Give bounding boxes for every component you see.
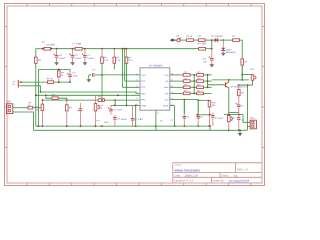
frame left ticks [5, 25, 8, 27]
svg-text:C? 4.7uF: C? 4.7uF [113, 108, 122, 111]
wire d-row b [193, 39, 198, 41]
wire bus y126 [36, 125, 210, 127]
capacitor C9 [197, 100, 199, 114]
trimmer RV1 [251, 75, 254, 80]
trimmer RV3 vertical [95, 95, 97, 103]
wire y98 jog [46, 95, 52, 98]
wire d-row d [218, 39, 233, 41]
connector CN2 [250, 120, 256, 129]
wire Q1 collector [228, 80, 230, 82]
svg-text:Drawn By:: Drawn By: [213, 180, 225, 183]
svg-text:D? 1N4007: D? 1N4007 [212, 35, 224, 38]
wire d-row e [239, 40, 242, 59]
svg-text:GND: GND [141, 105, 146, 108]
resistor matrix row 1 [170, 74, 184, 76]
switch S1 [177, 39, 180, 42]
resistor R20 horizontal [52, 97, 58, 100]
svg-text:100uF: 100uF [75, 57, 82, 60]
capacitor C14 [114, 115, 116, 118]
diode D2 1N4007 [215, 38, 218, 42]
wire rail segment 3 [82, 48, 198, 50]
resistor R15 horizontal [187, 39, 194, 42]
svg-text:2018-12-20: 2018-12-20 [185, 175, 199, 178]
svg-text:LED?: LED? [226, 48, 232, 51]
svg-text:C? 100nF: C? 100nF [117, 118, 127, 121]
wire x126 drop2 [126, 70, 128, 106]
transistor Q1 [208, 84, 226, 86]
wire drop x126 down [126, 63, 128, 69]
inductor L1 [75, 47, 82, 50]
svg-text:VCC: VCC [141, 74, 146, 77]
connector CN1 [7, 104, 13, 114]
svg-text:11: 11 [157, 111, 159, 114]
svg-text:R? 10R: R? 10R [198, 42, 207, 45]
capacitor C10 polarized [212, 113, 214, 115]
wire CN1 pin2 [13, 112, 34, 130]
wire to trimmer top [242, 74, 252, 76]
capacitor C11 polarized [211, 49, 213, 59]
svg-text:SYO: SYO [164, 74, 169, 77]
resistor R6 rail drop [113, 48, 115, 50]
svg-text:RV?: RV? [212, 101, 217, 104]
resistor matrix row 2 [170, 80, 184, 82]
wire drop x124.7 to pin2 [124, 48, 126, 50]
svg-text:MO: MO [165, 80, 169, 83]
frame right ticks [262, 25, 265, 27]
wire y86 stub [21, 86, 40, 92]
wire drop x122.5 to pin3 [122, 48, 124, 50]
wire y85 right [238, 84, 240, 86]
wire Q1 emitter [228, 88, 230, 113]
frame inner border [7, 6, 262, 183]
capacitor C4 filter [84, 48, 86, 50]
resistor R2 on left vertical [35, 57, 38, 63]
junction dots bus [38, 125, 40, 127]
svg-text:Sheet:: Sheet: [222, 175, 230, 178]
resistor R10 horizontal [98, 99, 104, 102]
wire y82 line b [54, 81, 70, 83]
svg-text:Wave Generator: Wave Generator [175, 168, 201, 172]
op-amp U1 body XR2206 [140, 68, 170, 110]
ground under LED [221, 52, 225, 54]
capacitor C12 [238, 115, 240, 118]
wire row6 [170, 105, 175, 107]
wire CN1 pin1 b [33, 107, 41, 109]
svg-text:R? 1k: R? 1k [47, 78, 54, 81]
wire U1 bottom pin [155, 110, 157, 130]
wire to CN2 pin1 [243, 115, 250, 123]
wire x247 drop [248, 85, 251, 127]
junction dots rail [42, 48, 44, 50]
resistor R8 vertical [58, 70, 60, 71]
capacitor C2 filter [56, 48, 58, 50]
svg-text:WAVE: WAVE [163, 105, 169, 108]
resistor R12 vertical [41, 100, 43, 104]
frame bottom ticks [26, 183, 28, 186]
wire d-row c [205, 39, 215, 41]
wire CN1 pin1 [13, 107, 28, 109]
wire left vertical 2 [37, 70, 39, 127]
svg-text:Q? S8050(SOT-23): Q? S8050(SOT-23) [231, 86, 249, 89]
svg-text:100nF: 100nF [87, 57, 94, 60]
wire rail to diode row [211, 40, 213, 49]
capacitor C5 polarized [69, 72, 71, 75]
resistor R18 vertical [241, 59, 244, 65]
wire row5 [170, 99, 198, 101]
svg-text:EasyEDA V5.1.3: EasyEDA V5.1.3 [174, 180, 194, 183]
wire x115 drop [114, 100, 116, 105]
led LED1 [222, 40, 224, 48]
wire rail segment 4 [206, 48, 212, 50]
capacitor C8 [183, 100, 185, 114]
svg-text:Date:: Date: [175, 175, 181, 178]
resistor R9 horizontal [47, 81, 53, 84]
wire y79.9 line [212, 79, 243, 81]
wire y105 line [111, 104, 140, 106]
wire y114 short [197, 114, 209, 116]
svg-text:100uF: 100uF [59, 57, 66, 60]
svg-text:RV?: RV? [99, 104, 104, 107]
svg-text:5A 250V: 5A 250V [47, 44, 56, 47]
wire left vertical main [35, 49, 37, 58]
svg-text:REV: 1.0: REV: 1.0 [238, 169, 249, 172]
svg-text:U? XR2206: U? XR2206 [149, 65, 163, 68]
net arrow marker [170, 38, 174, 41]
capacitor C17 polarized [238, 101, 240, 105]
resistor R14 vertical [209, 99, 211, 102]
wire trimmer wiper [242, 79, 249, 81]
resistor R series rail [199, 47, 206, 50]
resistor R11 horizontal [28, 106, 33, 109]
svg-text:CN?: CN? [250, 117, 255, 120]
resistor matrix row 4 [170, 92, 184, 94]
svg-text:RED(0805): RED(0805) [226, 51, 236, 54]
ground under C11 [210, 64, 214, 66]
svg-text:RV?: RV? [250, 68, 255, 71]
wire rail segment 1 [36, 48, 44, 50]
svg-text:TITLE:: TITLE: [175, 164, 182, 167]
wire y114 line [224, 114, 243, 116]
frame top ticks [26, 4, 28, 7]
trimmer RV2 vertical [228, 115, 231, 121]
wire y82 line [21, 81, 47, 83]
svg-text:BIAS: BIAS [164, 86, 169, 89]
wire bus y130 [34, 129, 248, 131]
connector J1 input [17, 80, 19, 88]
wire y100 line [42, 99, 98, 101]
capacitor C7 small [80, 103, 82, 107]
resistor R16 horizontal [198, 39, 205, 42]
svg-text:Vout: Vout [104, 121, 109, 124]
capacitor C15 [132, 105, 134, 116]
wire matrix bus v1 [193, 75, 195, 94]
resistor R17 horizontal [233, 39, 240, 42]
ground bus [239, 130, 241, 133]
wire x135 drop [135, 105, 137, 126]
frame outer border [5, 4, 265, 186]
resistor R19 vertical [238, 85, 240, 89]
svg-text:1/1: 1/1 [234, 175, 238, 178]
resistor R13 vertical [66, 100, 68, 105]
capacitor C13 polarized [110, 105, 112, 107]
svg-text:tanmoyguy2016709: tanmoyguy2016709 [229, 180, 250, 183]
wire d-row a [180, 39, 186, 41]
capacitor C16 bypass pin1 [95, 74, 102, 76]
wire trimmer bottom [237, 80, 252, 85]
wire drop x102 to pin1 [101, 63, 103, 75]
svg-text:4.7k: 4.7k [35, 109, 39, 112]
title block grid [173, 162, 262, 164]
svg-text:CN?: CN? [6, 101, 12, 104]
svg-text:C? 10uF: C? 10uF [215, 117, 224, 120]
svg-text:10uF: 10uF [73, 74, 79, 77]
svg-text:L? 1mH: L? 1mH [73, 42, 82, 45]
wire y95 line [36, 94, 140, 96]
capacitor C3 filter [72, 48, 74, 50]
resistor R5 rail drop [101, 48, 103, 50]
svg-text:R? 1k: R? 1k [186, 35, 193, 38]
wire cap5 bottom [69, 80, 71, 82]
resistor R7 rail drop [126, 48, 128, 50]
wire rail segment 2 [51, 48, 75, 50]
wire y92 long line [40, 92, 140, 93]
resistor matrix row 3 [170, 86, 184, 88]
wire drop x114 down [113, 63, 115, 69]
wire y69 line [38, 70, 70, 72]
fuse F1 [44, 47, 51, 50]
wire matrix bus v2 [207, 75, 209, 87]
